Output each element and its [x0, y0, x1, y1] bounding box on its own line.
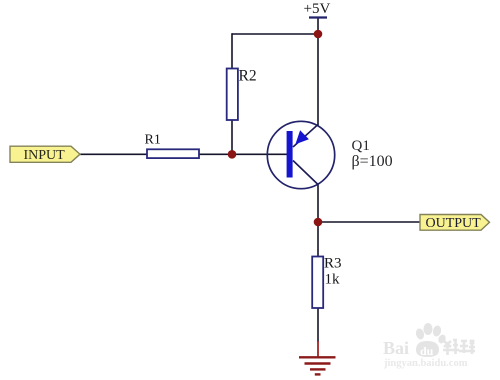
svg-text:du: du	[420, 344, 434, 358]
svg-text:+5V: +5V	[304, 1, 331, 17]
svg-text:R2: R2	[239, 68, 257, 85]
svg-text:β=100: β=100	[352, 153, 393, 170]
svg-text:Q1: Q1	[352, 138, 370, 154]
svg-text:jingyan.baidu.com: jingyan.baidu.com	[383, 358, 468, 369]
svg-text:Bai: Bai	[383, 338, 409, 358]
svg-text:1k: 1k	[325, 272, 341, 288]
svg-text:R3: R3	[324, 256, 342, 272]
svg-text:OUTPUT: OUTPUT	[426, 216, 482, 231]
svg-text:INPUT: INPUT	[24, 148, 66, 163]
svg-text:R1: R1	[145, 133, 161, 148]
